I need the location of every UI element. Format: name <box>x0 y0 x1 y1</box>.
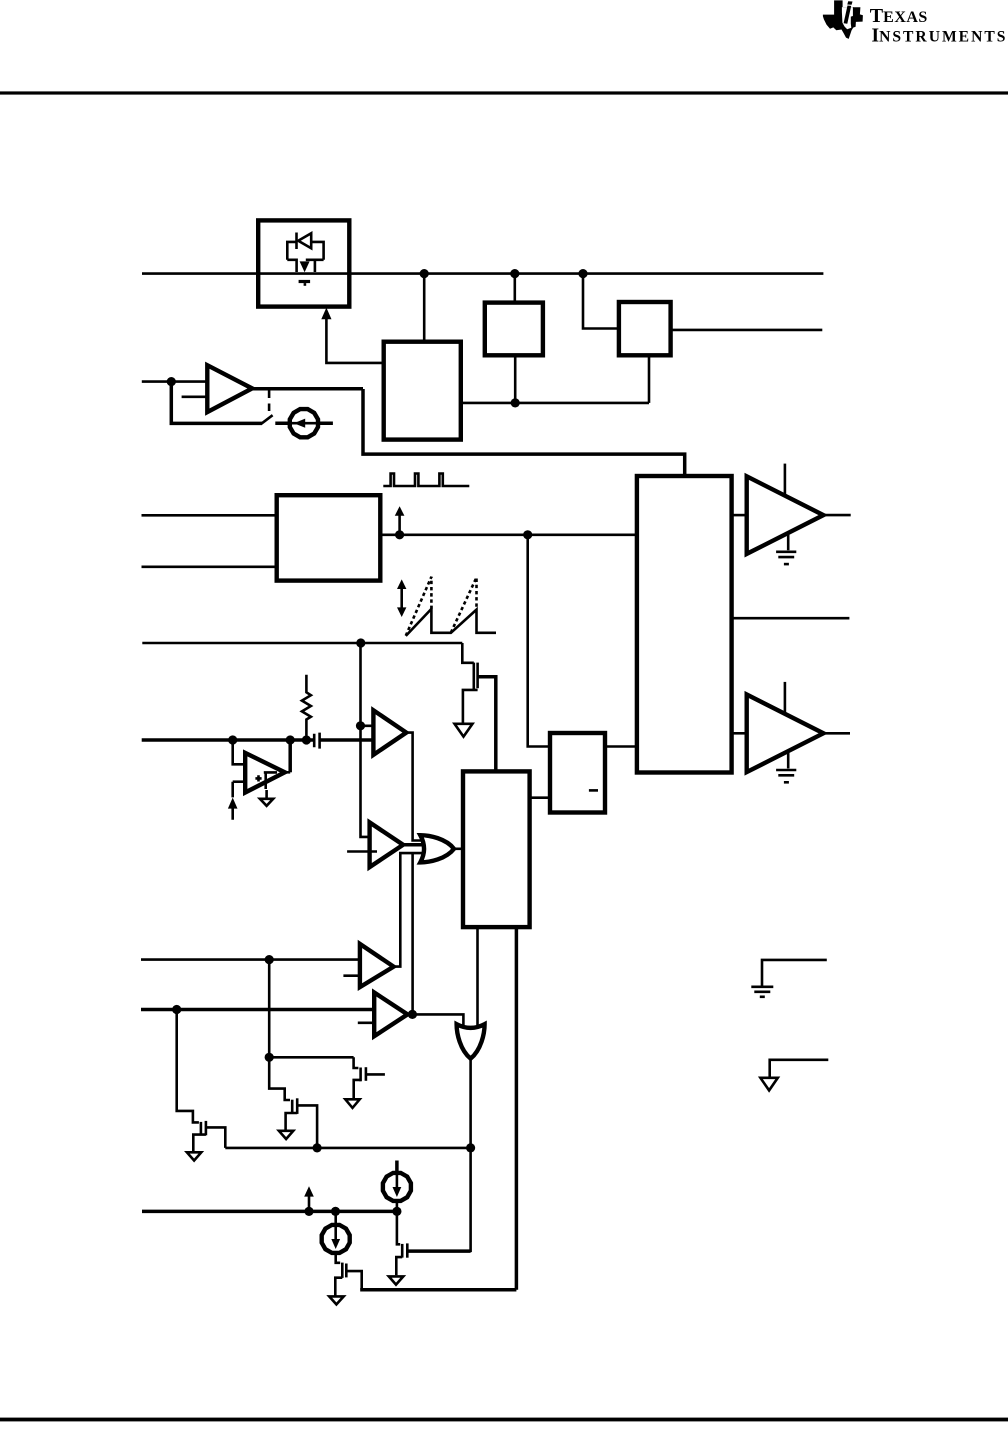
comparator U-LV2 <box>374 993 407 1037</box>
wire comp4 to OR1 join <box>411 853 414 1014</box>
ground Q-B <box>279 1131 293 1139</box>
waveform ramp double arrow <box>397 579 406 617</box>
wire junction2 to box1 <box>513 274 516 303</box>
node VIN junction 2 <box>510 269 519 278</box>
node circle1 branch <box>392 1207 401 1216</box>
or-gate OR2 <box>457 1024 485 1058</box>
TI logo bug (Texas map with white ti) <box>823 0 863 39</box>
wire bottom rail 1147 <box>225 1147 470 1150</box>
comparator U-OV <box>373 710 406 755</box>
wire comp4 input <box>141 1008 374 1012</box>
wire comp4 output to OR2 <box>408 1014 464 1028</box>
node VSENSE 3 <box>302 735 311 744</box>
wire comp4 minus stub <box>358 1021 380 1024</box>
wire driver2 output <box>823 732 850 735</box>
arrow reference input <box>228 782 238 820</box>
node COMP branch <box>356 638 365 647</box>
resistor R-comp <box>302 675 311 736</box>
waveform sawtooth solid <box>406 609 496 636</box>
wire COMP input <box>142 642 462 645</box>
node comp4 input branch <box>172 1005 181 1014</box>
logic box <box>550 733 605 813</box>
wire clock to logic box <box>528 535 550 747</box>
ground Q-D <box>329 1296 344 1304</box>
wire box2 output BOOT <box>671 329 823 332</box>
wire comp3 input <box>141 958 360 961</box>
wire box2 bottom <box>648 355 651 403</box>
node rail junction <box>313 1143 322 1152</box>
regulator block <box>384 342 461 440</box>
wire comp3 output to OR1 <box>394 853 423 967</box>
node osc out 1 <box>395 530 404 539</box>
ground Q-A <box>187 1152 201 1160</box>
wire comp vertical to comparators <box>361 643 370 837</box>
ground legend signal <box>751 960 827 997</box>
transistor Q-foldback <box>462 643 496 771</box>
wire EN minus stub <box>182 395 215 398</box>
node comp4 output <box>408 1010 417 1019</box>
wire logic box to output block <box>605 745 637 748</box>
high-side FET box <box>258 220 349 306</box>
footer rule <box>0 1418 1008 1422</box>
ground legend power <box>760 1060 828 1091</box>
wire EN input <box>142 380 208 383</box>
wire latch to logic box <box>530 796 550 799</box>
ground ref amp <box>265 790 268 798</box>
current source I-hys <box>290 409 318 437</box>
node EN input <box>167 377 176 386</box>
wire VSENSE input <box>142 738 314 742</box>
wire dashed switch control <box>268 391 271 415</box>
buffer driver1 <box>747 476 824 554</box>
oscillator block <box>277 495 381 580</box>
node on y402 line <box>511 398 520 407</box>
wire comp2 output <box>403 843 424 847</box>
wire comp1 input stub <box>361 724 382 727</box>
node osc out 2 <box>523 530 532 539</box>
wire SS input <box>142 565 277 568</box>
transistor Q-D <box>335 1253 361 1296</box>
body diode D1 <box>287 233 323 260</box>
or-gate OR1 <box>420 835 454 862</box>
arrow bottom indicator <box>304 1186 314 1211</box>
svg-text:INSTRUMENTS: INSTRUMENTS <box>872 25 1008 46</box>
wire driver2 input <box>732 732 747 735</box>
minus label in logic box <box>589 789 598 792</box>
wire driver1 input <box>732 514 747 517</box>
wire bottom rail to latch line <box>360 1288 516 1292</box>
wire branch to Q-C <box>269 1056 353 1059</box>
wire oscillator output <box>380 533 637 536</box>
power FET symbol inside box <box>287 260 323 286</box>
wire comp2 minus stub <box>347 850 377 853</box>
ground driver1 <box>776 534 796 565</box>
node OR2 output <box>466 1143 475 1152</box>
node arrow branch <box>304 1207 313 1216</box>
wire arrow from regulator to FET box <box>326 318 383 363</box>
wire to current source <box>275 421 333 425</box>
ground foldback <box>455 724 473 737</box>
transistor Q-B <box>269 960 317 1148</box>
waveform sawtooth dashed <box>406 577 477 636</box>
node VIN junction 3 <box>578 269 587 278</box>
node comp1 input <box>356 721 365 730</box>
header rule <box>0 91 1008 94</box>
transistor Q-A <box>177 1010 226 1152</box>
node VIN junction 1 <box>420 269 429 278</box>
latch block <box>463 771 530 927</box>
current source I2 <box>322 1211 350 1253</box>
ground Q-C <box>345 1099 359 1108</box>
comparator U-PWM <box>370 822 404 867</box>
comparator U-LV1 <box>360 944 394 987</box>
node circle2 branch <box>331 1207 340 1216</box>
wire latch bottom long <box>515 927 519 1290</box>
wire comp3 minus stub <box>343 974 366 977</box>
wire VIN rail <box>142 272 823 275</box>
transistor Q-E <box>396 1211 470 1275</box>
wire latch bottom to OR2 <box>476 927 479 1029</box>
wire comp1 output to OR1 <box>406 733 423 841</box>
node comp3 input branch <box>265 955 274 964</box>
small box 1 <box>485 303 543 356</box>
ground Q-E <box>389 1276 404 1284</box>
buffer driver2 <box>747 695 824 773</box>
current source I1 <box>383 1161 411 1212</box>
node VSENSE 2 <box>286 735 295 744</box>
ground driver2 <box>776 752 796 783</box>
wire OR1 output <box>453 847 463 850</box>
wire EN feedback <box>171 382 262 424</box>
wire ILIM input <box>142 1210 397 1214</box>
wire OR2 output down to FET E gate <box>409 1057 471 1251</box>
wire junction3 to box2 <box>583 274 619 329</box>
svg-text:TEXAS: TEXAS <box>870 5 928 27</box>
arrow clock indicator <box>398 515 401 533</box>
wire EN comparator output <box>252 387 363 391</box>
wire driver2 supply <box>784 682 787 715</box>
small box 2 <box>619 302 671 355</box>
switch blade <box>261 415 272 424</box>
wire driver1 supply <box>784 464 787 497</box>
wire EN output to logic block top <box>363 389 685 476</box>
transistor Q-C <box>354 1057 385 1099</box>
node VSENSE 1 <box>228 735 237 744</box>
wire RT input <box>142 514 277 517</box>
wire driver1 output <box>823 514 850 517</box>
wire box1 bottom <box>514 355 517 403</box>
node comp3 line branch <box>265 1053 274 1062</box>
capacitor C-comp <box>314 733 319 749</box>
output logic block <box>637 476 732 773</box>
comparator U-EN <box>207 365 252 412</box>
waveform clock pulses <box>383 474 469 487</box>
wire regulator to boxes rail <box>461 402 649 405</box>
wire middle output <box>732 617 850 620</box>
wire junction1 to regulator box <box>423 274 426 342</box>
op-amp 0.8V reference buffer <box>233 740 291 793</box>
